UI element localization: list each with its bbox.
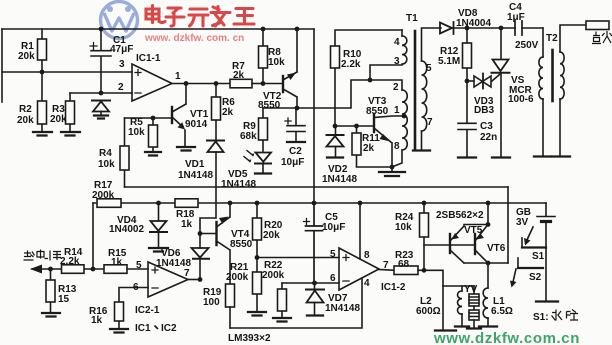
wire IC1-2 pin5 line [257,257,339,259]
capacitor C4 [515,21,522,35]
resistor R15 [104,265,127,274]
node R8 top rail [261,27,266,32]
svg-text:8: 8 [364,250,370,261]
svg-text:T1: T1 [406,13,418,24]
wire emitter bus [464,203,488,225]
wire collector bus [464,262,508,264]
resistor R22 [281,283,283,318]
svg-text:5: 5 [426,63,432,74]
svg-text:8550: 8550 [258,100,281,111]
chassis bar battery [536,300,558,302]
diode VD8 [440,23,452,34]
svg-text:IC1-2: IC1-2 [381,282,406,293]
chassis bar L2 left [435,329,456,331]
svg-text:4: 4 [394,37,400,48]
label thermocouple 热电偶 [24,250,62,261]
svg-text:10μF: 10μF [322,222,345,233]
inductor L1 [487,263,489,288]
ground R3 [61,132,80,136]
svg-text:47μF: 47μF [110,44,133,55]
ground R16 [110,329,128,333]
wire rail left drop to thermo line [92,203,94,269]
wire L2/YV top link [443,285,474,287]
resistor R10 [335,30,402,126]
wire IC2-1 pin6 / resistor R16 [119,288,148,330]
svg-text:20k: 20k [263,230,280,241]
resistor R21 [256,258,258,313]
svg-text:DB3: DB3 [474,105,494,116]
svg-text:S2: S2 [529,272,542,283]
node T1 pin3 wire junction [368,78,373,83]
ground R13 [42,313,60,317]
transformer T1 primary lower winding [402,90,407,150]
svg-text:8550: 8550 [366,106,389,117]
svg-text:www. dzkfw. com. cn: www. dzkfw. com. cn [144,33,244,44]
node IC2-1 output [198,277,203,282]
resistor R4 [124,118,126,187]
svg-text:2: 2 [118,82,124,93]
resistor R3 [69,93,71,132]
svg-text:R2: R2 [19,104,32,115]
resistor R19 [226,284,235,307]
svg-text:20k: 20k [50,114,67,125]
ground VT1 emitter [177,147,195,151]
resistor R12 [466,28,468,81]
transformer T2 primary [542,28,544,57]
wire op-amp pin3 line [2,71,132,73]
svg-text:2.2k: 2.2k [60,256,80,267]
ground R5 [145,152,161,156]
transformer T1 secondary winding [422,61,427,131]
wire left edge drop [1,29,3,102]
wire LM393 bottom rail [230,278,362,328]
resistor R11 [357,126,393,167]
svg-text:15: 15 [58,294,70,305]
svg-text:6: 6 [330,273,336,284]
svg-text:1N4148: 1N4148 [221,179,256,190]
ground diode C1 [94,116,108,119]
svg-text:IC2: IC2 [161,323,177,334]
wire VT5/VT6 base line [424,244,475,246]
ground VD2 [327,156,343,158]
switch S1 [522,246,546,248]
switch S2 [518,267,543,269]
svg-text:2SB562×2: 2SB562×2 [436,210,484,221]
node VT2 collector [295,106,300,111]
svg-text:2k: 2k [363,143,375,154]
wire IC1-2 output [379,269,394,272]
wire T1 secondary bottom [421,131,423,150]
node pin3/R1/R2 junction [40,70,45,75]
node R17 drop / R15 [91,267,96,272]
node VT1 base / R5 [151,116,156,121]
top power rail [2,28,314,30]
svg-text:6: 6 [133,282,139,293]
resistor R9 [262,108,264,151]
wire L2 left leg [442,286,444,330]
svg-text:T2: T2 [546,33,558,44]
svg-text:1k: 1k [91,315,103,326]
diode VD2 [335,126,337,135]
resistor R14 [62,265,85,274]
chassis bar T2 secondary [552,155,570,157]
svg-text:2: 2 [393,82,399,93]
svg-text:8: 8 [394,141,400,152]
watermark logo circle W [101,2,138,39]
svg-text:2.2k: 2.2k [341,59,361,70]
resistor R8 [262,29,264,84]
chassis bar C3 [458,156,476,158]
wire IC1-1 output [172,83,230,85]
wire collector line to T1 [263,30,402,108]
resistor R20 [256,203,258,258]
node pin8 rail [358,201,363,206]
svg-text:www.dzkfw.com.cn: www.dzkfw.com.cn [433,330,580,345]
svg-text:200k: 200k [262,270,285,281]
resistor R17 [97,199,121,208]
wire long vertical rail feed [313,29,315,203]
svg-text:22n: 22n [480,132,497,143]
transistor VT5 [449,234,451,253]
led VD5 [256,153,272,162]
capacitor C1 [91,29,111,93]
node VT4 emitter rail [228,201,233,206]
wire VD1 down to VT4 base [200,152,216,234]
svg-text:10μF: 10μF [281,157,304,168]
wire IC1-2 pin8 [359,203,361,259]
node VT3 emitter/R11/pin8 [390,165,395,170]
svg-text:8550: 8550 [230,239,253,250]
resistor R2 [41,72,43,132]
transformer T1 core [414,31,417,150]
svg-text:6.5Ω: 6.5Ω [491,306,513,317]
transformer T2 core [551,50,554,101]
svg-text:10k: 10k [268,57,285,68]
diode VD4 [158,203,160,221]
capacitor C2 [287,108,305,142]
svg-text:IC1: IC1 [135,323,151,334]
svg-text:200k: 200k [92,190,115,201]
resistor R18 [175,199,198,208]
svg-text:C2: C2 [289,146,302,157]
svg-text:S1: S1 [532,251,545,262]
wire op-amp pin2 line [70,92,132,94]
ground VD4 [149,248,168,252]
svg-text:1N4148: 1N4148 [322,174,357,185]
svg-text:1N4148: 1N4148 [178,170,213,181]
resistor R1 [41,29,43,72]
svg-text:20k: 20k [18,51,35,62]
op-amp IC1-1 [132,64,172,101]
diode at C1 bottom [92,100,110,102]
wire stub to L2/YV [424,270,443,286]
resistor R6 [215,84,217,140]
chassis bar VS [492,156,510,158]
svg-text:1N4004: 1N4004 [456,18,491,29]
svg-text:5.1M: 5.1M [438,56,460,67]
svg-text:7: 7 [383,260,389,271]
op-amp IC1-2 [339,248,379,290]
chassis bar T1 secondary [413,149,430,151]
node VS anode [499,26,504,31]
diode VD7 [314,283,316,290]
svg-text:5: 5 [136,260,142,271]
wire T1 pin8 [392,150,402,167]
svg-text:100-6: 100-6 [508,94,534,105]
solenoid YV [473,286,475,294]
svg-text:1μF: 1μF [507,12,525,23]
thyristor VS [500,28,502,58]
svg-text:1k: 1k [181,219,193,230]
transistor VT6 [474,234,476,254]
wire mid distribution line [125,186,509,188]
svg-text:7: 7 [184,268,190,279]
chassis bar YV [467,327,481,329]
svg-text:VT6: VT6 [487,243,506,254]
node R20 top rail [255,201,260,206]
svg-text:200k: 200k [226,272,249,283]
ground VD5 [255,172,271,174]
svg-text:7: 7 [427,117,433,128]
svg-text:2k: 2k [233,70,245,81]
svg-text:10k: 10k [128,127,145,138]
ground VT3 [379,172,405,176]
resistor R13 [50,269,52,313]
node VD4 top [156,201,161,206]
svg-text:IC1-1: IC1-1 [136,53,161,64]
node R20/R21/pin5 [255,255,260,260]
node R23/R24 [422,268,427,273]
node C1/pin2 junction [99,91,104,96]
ground R22 [273,318,291,322]
wire VT3 base node line [335,125,374,127]
transistor VT2 [263,83,283,85]
ground R21 [248,312,266,316]
resistor R23 [394,266,418,275]
svg-text:1N4148: 1N4148 [325,303,360,314]
node R13 top [48,267,53,272]
svg-text:3V: 3V [516,217,529,228]
capacitor C5 [306,203,323,283]
transformer T1 primary upper winding [402,36,407,64]
node output/VT1 collector [184,81,189,86]
op-amp IC2-1 [148,262,188,297]
wire VD8 to C4 [454,27,516,29]
svg-text:1: 1 [175,71,181,82]
node C1 top rail junction [99,27,104,32]
svg-text:68: 68 [398,259,410,270]
inductor L2 [461,286,463,291]
battery GB [545,203,547,216]
bottom main rail [93,202,546,204]
ignition electrode box [586,21,609,30]
node R12/C3/diac [465,79,470,84]
node VD7 top / C5 bottom [312,281,317,286]
wire feed drop x508 [507,187,509,263]
transformer T2 secondary [560,52,564,99]
wire IC1-2 pin6 line [282,282,339,284]
transistor VT1 [171,107,173,123]
svg-text:68k: 68k [240,131,257,142]
svg-text:1k: 1k [111,257,123,268]
svg-text:IC2-1: IC2-1 [135,305,160,316]
diode VD1 [207,140,224,142]
svg-text:LM393×2: LM393×2 [228,333,271,344]
node VT4 base tap [198,231,203,236]
svg-text:3: 3 [394,56,400,67]
svg-text:C3: C3 [480,121,493,132]
wire T1 secondary top to VD8 [422,28,442,61]
ground R2 [33,132,52,136]
svg-text:10k: 10k [395,222,412,233]
watermark red title 电子开发王 [146,6,254,27]
wire thermocouple input line [32,268,148,270]
svg-text:1: 1 [394,105,400,116]
svg-text:10k: 10k [98,159,115,170]
transistor VT4 [200,233,217,235]
svg-text:VD1: VD1 [185,159,205,170]
svg-text:250V: 250V [515,40,539,51]
node R24 top rail [422,201,427,206]
node VT6 emitter rail [486,201,491,206]
transistor VT3 [373,114,375,132]
svg-text:4: 4 [364,278,370,289]
svg-text:9014: 9014 [185,119,208,130]
svg-text:3: 3 [119,59,125,70]
resistor R7 [230,79,252,88]
svg-text:VT5: VT5 [464,225,483,236]
svg-text:1N4002: 1N4002 [109,224,144,235]
node output/R6 junction [214,81,219,86]
svg-text:20k: 20k [17,115,34,126]
arrow thermocouple [30,265,42,274]
label ignition 点火 [592,31,612,44]
svg-text:2k: 2k [222,107,234,118]
diode VD6 [199,234,201,249]
chassis bar T2 primary [534,155,551,157]
node C5 top rail [312,201,317,206]
node T1 pin1 tap [402,114,407,119]
chassis bar L2 [455,325,469,327]
svg-text:5: 5 [330,249,336,260]
diac VD3 [467,80,474,82]
resistor R24 [423,203,425,270]
svg-text:600Ω: 600Ω [416,306,441,317]
node R7/R8/VT2 base [261,81,266,86]
capacitor C3 [458,81,476,157]
node collector bus [486,261,491,266]
chassis bar L1 [479,325,497,327]
svg-text:100: 100 [203,297,220,308]
svg-text:S1:: S1: [533,312,549,323]
node R12 top [465,26,470,31]
svg-text:R4: R4 [99,148,112,159]
ground VD7 [307,314,323,316]
svg-text:YV: YV [464,284,478,295]
node VT2 emitter rail [295,27,300,32]
resistor R5 [152,118,154,152]
